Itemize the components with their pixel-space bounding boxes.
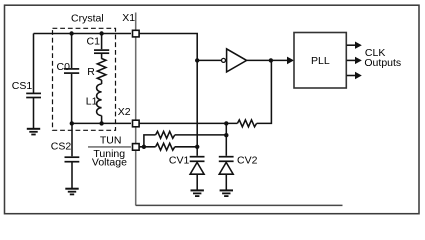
svg-text:TUN: TUN bbox=[100, 134, 122, 146]
wire: to inverter input bbox=[197, 59, 221, 61]
svg-text:CS1: CS1 bbox=[12, 80, 33, 92]
wire: C0 top lead bbox=[71, 34, 73, 69]
inverter U1 bbox=[222, 58, 226, 62]
svg-text:Crystal: Crystal bbox=[71, 13, 104, 25]
capacitor C0 bbox=[64, 69, 79, 73]
ground (CS1) bbox=[27, 129, 40, 135]
svg-text:C0: C0 bbox=[57, 61, 71, 73]
crystal dashed box bbox=[53, 28, 116, 130]
node inverter output junction bbox=[269, 58, 273, 62]
ground (CV2) bbox=[220, 190, 233, 196]
IC outline left edge bbox=[135, 13, 137, 206]
svg-text:Voltage: Voltage bbox=[92, 157, 127, 169]
CLK output arrow 2 bbox=[347, 57, 362, 64]
wire: CV1 top lead bbox=[196, 147, 198, 156]
node C0-top junction bbox=[69, 31, 73, 35]
svg-text:X1: X1 bbox=[122, 12, 135, 24]
wire: C1 to R lead bbox=[101, 54, 103, 59]
IC outline bottom edge bbox=[136, 204, 343, 206]
wire: TUN branch up bbox=[144, 135, 156, 147]
node TUN junction bbox=[142, 145, 146, 149]
ground (CV1) bbox=[191, 190, 204, 196]
varactor CV1 diode bbox=[190, 162, 204, 174]
wire: top net y=33.5 from CS1 corner to X1 pin bbox=[34, 33, 132, 35]
wire: tuning voltage input bbox=[88, 146, 131, 148]
wire: CV2 column bbox=[225, 123, 227, 155]
varactor CV2 diode bbox=[219, 162, 233, 174]
node CV1 junction bbox=[195, 145, 199, 149]
svg-text:R: R bbox=[87, 66, 95, 78]
node CV2 mid junction bbox=[224, 133, 228, 137]
node C1-top junction bbox=[99, 31, 103, 35]
svg-text:C1: C1 bbox=[87, 36, 101, 48]
arrowhead into PLL bbox=[287, 57, 294, 65]
pin X1 bbox=[133, 30, 140, 37]
wire: CV1 bottom lead bbox=[196, 174, 198, 190]
svg-text:CV1: CV1 bbox=[169, 154, 190, 166]
wire: CS1 bottom lead bbox=[33, 98, 35, 129]
CLK output arrow 1 bbox=[347, 42, 362, 49]
wire: TUN to lower resistor bbox=[140, 146, 156, 148]
svg-text:L1: L1 bbox=[86, 95, 98, 107]
wire: X2 net to right bbox=[140, 122, 238, 124]
node inverter input junction bbox=[195, 58, 199, 62]
pin TUN bbox=[133, 144, 140, 151]
wire: inverter output bbox=[247, 59, 288, 61]
pin X2 bbox=[133, 120, 140, 127]
wire: crystal bottom net to X2 pin bbox=[72, 122, 131, 124]
varactor CV2 capacitor plates bbox=[219, 157, 234, 162]
wire: X1 net to the right and down bbox=[140, 34, 198, 147]
wire: lower resistor to CV1 column bbox=[175, 146, 197, 148]
inductor L1 bbox=[97, 84, 102, 116]
svg-text:PLL: PLL bbox=[311, 55, 330, 67]
node CV2 top junction bbox=[224, 121, 228, 125]
wire: C1 top lead bbox=[101, 34, 103, 50]
svg-text:X2: X2 bbox=[118, 106, 131, 118]
wire: CV2 bottom lead bbox=[225, 174, 227, 190]
wire: C0 bottom lead bbox=[71, 74, 73, 123]
resistor R bbox=[97, 59, 106, 81]
resistor feedback (X2 to inverter output) bbox=[237, 120, 256, 127]
svg-text:CS2: CS2 bbox=[51, 141, 72, 153]
wire: CS2 top lead bbox=[71, 123, 73, 156]
capacitor C1 bbox=[94, 50, 109, 53]
PLL box U2 bbox=[294, 33, 346, 89]
node CS2 junction bbox=[70, 121, 74, 125]
wire: L1 bottom lead bbox=[101, 116, 103, 124]
wire: CS2 bottom lead bbox=[71, 163, 73, 189]
capacitor CS1 bbox=[26, 93, 41, 97]
resistor lower (TUN to CV1) bbox=[156, 143, 175, 150]
capacitor CS2 bbox=[65, 157, 80, 162]
svg-text:Outputs: Outputs bbox=[364, 57, 401, 69]
ground (CS2) bbox=[65, 189, 78, 195]
node L1-bottom junction bbox=[99, 121, 103, 125]
wire: CS1 vertical from corner down to cap bbox=[33, 34, 35, 94]
CLK output arrow 3 bbox=[347, 72, 362, 79]
varactor CV1 capacitor plates bbox=[190, 157, 205, 162]
resistor upper (TUN to CV2) bbox=[156, 131, 175, 138]
wire: R to L1 lead bbox=[101, 80, 103, 84]
wire: upper resistor to CV2 column bbox=[175, 134, 227, 136]
svg-text:CV2: CV2 bbox=[237, 154, 258, 166]
wire: feedback resistor up to inverter output bbox=[257, 60, 272, 123]
